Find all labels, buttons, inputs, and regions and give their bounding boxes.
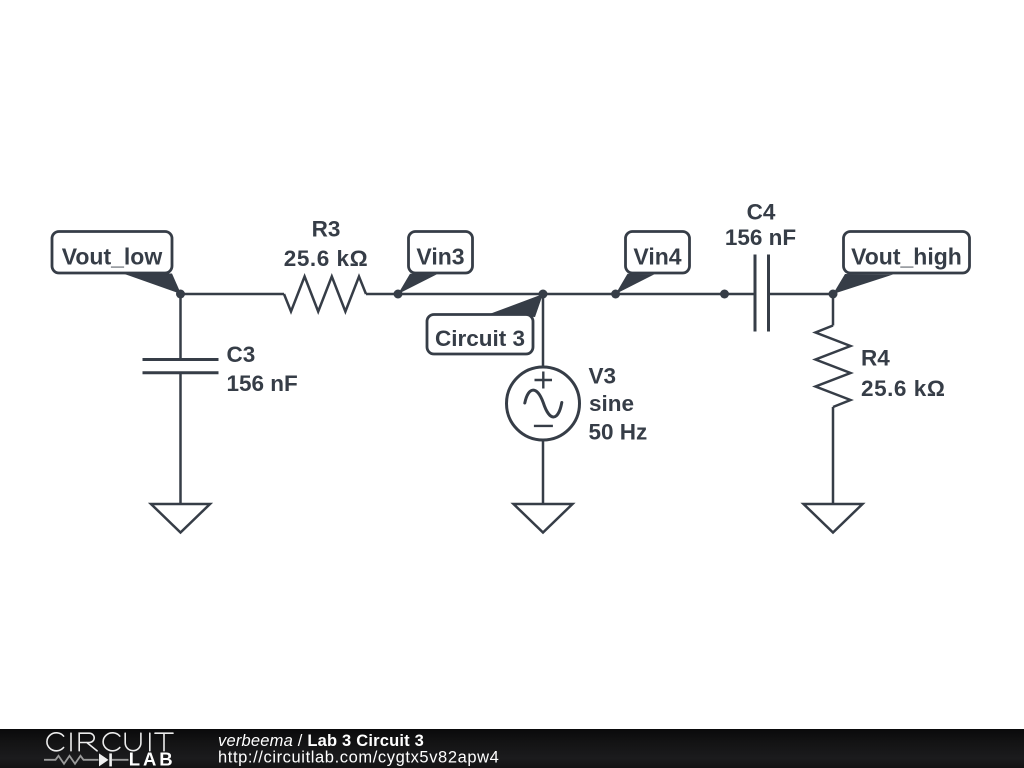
V3 sine wave <box>525 390 562 417</box>
svg-text:Vin3: Vin3 <box>416 244 464 270</box>
wire C4 right plate to node F <box>769 293 834 296</box>
voltage source V3 circle <box>507 367 580 440</box>
node flag Vin4 tail <box>616 274 655 294</box>
node flag Vout_high box <box>844 232 970 274</box>
ground under V3 <box>514 504 573 533</box>
svg-text:Vin4: Vin4 <box>633 244 681 270</box>
resistor R4 <box>816 326 851 408</box>
svg-text:V3: V3 <box>589 364 617 389</box>
wire main horizontal A to R3 <box>181 293 285 296</box>
svg-text:50 Hz: 50 Hz <box>589 420 648 445</box>
wire node C to node D to node E to C4 left plate <box>543 293 755 296</box>
resistor R3 <box>284 277 366 312</box>
wire R4 top <box>832 294 835 326</box>
svg-text:25.6 kΩ: 25.6 kΩ <box>284 246 368 271</box>
svg-text:http://circuitlab.com/cygtx5v8: http://circuitlab.com/cygtx5v82apw4 <box>218 749 499 767</box>
CircuitLab logo diode symbol <box>99 753 109 766</box>
junction node A <box>176 290 185 299</box>
junction node C <box>539 290 548 299</box>
svg-text:sine: sine <box>589 391 634 416</box>
node flag Vout_high tail <box>833 274 893 294</box>
wire R4 bottom <box>832 407 835 504</box>
svg-text:156 nF: 156 nF <box>227 371 298 396</box>
node flag Vout_low box <box>52 232 172 274</box>
svg-text:156 nF: 156 nF <box>725 225 796 250</box>
capacitor C3 <box>143 360 219 373</box>
V3 minus sign <box>534 425 553 427</box>
wire C3 vertical top <box>179 294 182 359</box>
wire R3 to node B to node C <box>366 293 543 296</box>
svg-text:Circuit 3: Circuit 3 <box>435 326 525 351</box>
svg-text:Vout_high: Vout_high <box>851 244 962 270</box>
wire V3 bottom <box>542 440 545 504</box>
junction node B <box>394 290 403 299</box>
junction node D <box>611 290 620 299</box>
svg-text:C3: C3 <box>227 342 256 367</box>
svg-text:R3: R3 <box>312 217 341 242</box>
footer bar <box>0 729 1024 768</box>
junction node F <box>829 290 838 299</box>
svg-text:verbeema / Lab 3 Circuit 3: verbeema / Lab 3 Circuit 3 <box>218 732 424 750</box>
node flag Circuit 3 box <box>427 315 533 355</box>
node flag Vout_low tail <box>123 274 181 295</box>
CircuitLab logo word CIRCUIT <box>47 733 173 751</box>
capacitor C4 <box>755 255 769 332</box>
svg-text:R4: R4 <box>861 346 890 371</box>
CircuitLab logo diode cathode bar <box>109 753 112 766</box>
node flag Vin4 box <box>626 232 690 274</box>
junction node E <box>720 290 729 299</box>
wire V3 top <box>542 294 545 368</box>
node flag Circuit 3 tail <box>490 294 544 317</box>
V3 plus sign <box>535 372 553 389</box>
ground under C3 <box>151 504 210 533</box>
svg-text:25.6 kΩ: 25.6 kΩ <box>861 376 945 401</box>
svg-text:LAB: LAB <box>129 749 176 768</box>
svg-text:Vout_low: Vout_low <box>62 244 163 270</box>
node flag Vin3 box <box>409 232 473 274</box>
wire C3 vertical bottom <box>179 373 182 504</box>
ground under R4 <box>804 504 863 533</box>
node flag Vin3 tail <box>398 274 437 294</box>
svg-text:C4: C4 <box>747 200 776 225</box>
CircuitLab logo squiggle resistor and diode <box>44 756 129 764</box>
